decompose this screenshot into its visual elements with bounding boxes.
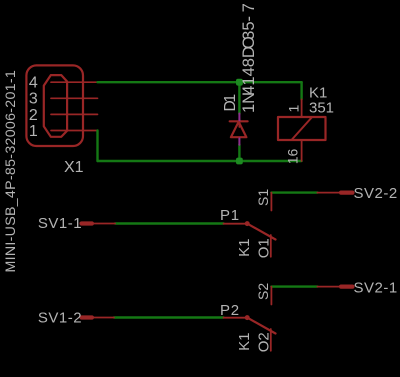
- diode D1 pin overlap bottom: [238, 138, 240, 144]
- connector X1 mini-USB inner contour: [44, 75, 67, 137]
- wire net bottom: [98, 160, 302, 162]
- wire SV1-2 to P2: [114, 316, 224, 318]
- svg-text:SV1-2: SV1-2: [38, 310, 82, 327]
- wire diode top: [238, 82, 240, 114]
- svg-text:K1: K1: [236, 239, 253, 257]
- contact1 pivot: [245, 221, 250, 226]
- junction dot bottom: [236, 158, 243, 165]
- junction dot top: [236, 79, 243, 86]
- diode D1: [230, 119, 248, 137]
- svg-text:SV1-1: SV1-1: [38, 215, 82, 232]
- svg-text:3: 3: [29, 91, 38, 108]
- SV2-1 pin line: [317, 286, 341, 288]
- diode D1 anode pin stub: [238, 119, 240, 127]
- svg-text:X1: X1: [64, 159, 84, 176]
- svg-text:O2: O2: [255, 332, 272, 352]
- connector X1: [26, 65, 97, 146]
- pin header SV1-1 pin: [82, 221, 116, 225]
- svg-text:351: 351: [309, 99, 334, 116]
- relay contact 2: [224, 287, 276, 351]
- pin 1 line: [51, 130, 98, 132]
- wire SV1-1 to P1: [115, 222, 223, 224]
- svg-text:D1: D1: [222, 94, 239, 112]
- SV1-1 pin line: [92, 223, 115, 225]
- svg-text:S2: S2: [255, 283, 271, 300]
- svg-text:S1: S1: [255, 189, 271, 206]
- svg-text:16: 16: [285, 149, 301, 165]
- svg-text:1: 1: [29, 123, 38, 140]
- relay pin 1: [301, 99, 303, 117]
- SV1-2 pad stub: [82, 315, 93, 319]
- svg-text:O1: O1: [255, 238, 272, 258]
- contact2 O pin: [270, 329, 272, 351]
- relay K1 coil: [278, 99, 326, 161]
- wire diode bottom: [238, 145, 240, 162]
- pin header SV1-2 pin: [82, 315, 115, 319]
- pin 3 line: [51, 97, 98, 99]
- diode D1 cathode bar: [230, 120, 248, 122]
- svg-text:SV2-1: SV2-1: [354, 280, 398, 297]
- contact2 arm: [247, 318, 275, 334]
- contact1 arm: [247, 224, 275, 240]
- contact2 P pin: [224, 317, 246, 319]
- svg-text:K1: K1: [236, 333, 253, 351]
- relay K1 coil diagonal: [292, 117, 313, 140]
- svg-text:1N4148DO35-7: 1N4148DO35-7: [240, 3, 258, 113]
- wire relay pin1 drop: [300, 82, 302, 99]
- wire S2 to SV2-1: [271, 285, 317, 287]
- SV2-2 pad stub: [341, 191, 353, 195]
- wire connector pin1 drop: [96, 131, 98, 162]
- pin 4 line: [51, 81, 98, 83]
- contact1 P pin: [224, 223, 246, 225]
- svg-text:P1: P1: [220, 207, 240, 224]
- svg-text:P2: P2: [220, 302, 240, 319]
- pin 2 line: [51, 113, 98, 115]
- svg-text:2: 2: [29, 107, 38, 124]
- relay K1 coil box: [278, 117, 326, 140]
- contact2 pivot: [245, 315, 250, 320]
- relay pin 16: [301, 140, 303, 161]
- connector X1 outer body: [26, 65, 83, 146]
- SV1-2 pin line: [92, 317, 114, 319]
- contact1 O pin: [270, 235, 272, 257]
- svg-text:SV2-2: SV2-2: [354, 185, 398, 202]
- wire net N$1 top horizontal: [98, 81, 302, 83]
- contact1 S pin: [270, 193, 272, 211]
- SV2-2 pin line: [317, 192, 341, 194]
- SV1-1 pad stub: [82, 221, 93, 225]
- diode D1 triangle: [231, 122, 247, 138]
- pin header SV2-2 pin: [317, 192, 352, 194]
- diode D1 pin overlap top: [238, 114, 240, 121]
- svg-text:4: 4: [29, 75, 38, 92]
- wire S1 to SV2-2: [271, 191, 317, 193]
- svg-text:MINI-USB_4P-85-32006-201-1: MINI-USB_4P-85-32006-201-1: [3, 70, 19, 273]
- svg-text:1: 1: [285, 105, 301, 113]
- contact2 S pin: [270, 287, 272, 305]
- relay contact 1: [224, 193, 276, 257]
- pin header SV2-1 pin: [317, 286, 352, 288]
- SV2-1 pad stub: [341, 285, 353, 289]
